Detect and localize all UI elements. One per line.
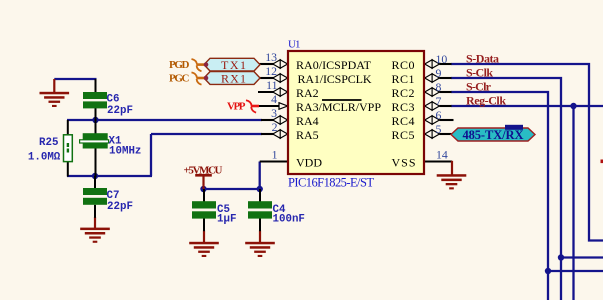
svg-text:R25: R25 (39, 137, 58, 149)
svg-text:5: 5 (436, 122, 442, 136)
svg-text:U1: U1 (288, 39, 301, 51)
svg-text:Reg-Clk: Reg-Clk (466, 93, 506, 107)
svg-text:22pF: 22pF (107, 201, 133, 213)
svg-text:PGD: PGD (169, 59, 190, 71)
svg-text:7: 7 (436, 94, 442, 108)
svg-text:3: 3 (271, 106, 277, 120)
svg-text:1: 1 (272, 148, 278, 162)
svg-text:VDD: VDD (296, 156, 322, 170)
svg-text:12: 12 (265, 64, 277, 78)
svg-text:RA2: RA2 (296, 86, 319, 100)
svg-text:14: 14 (436, 148, 448, 162)
svg-text:PIC16F1825-E/ST: PIC16F1825-E/ST (288, 176, 374, 190)
svg-text:6: 6 (436, 108, 442, 122)
svg-text:2: 2 (272, 120, 278, 134)
svg-text:RC5: RC5 (392, 128, 415, 142)
svg-text:13: 13 (265, 50, 277, 64)
svg-text:9: 9 (436, 66, 442, 80)
svg-text:RA1/ICSPCLK: RA1/ICSPCLK (298, 72, 372, 86)
svg-text:1.0MΩ: 1.0MΩ (28, 151, 61, 163)
svg-text:S-Data: S-Data (466, 51, 499, 65)
svg-text:485-TX/RX: 485-TX/RX (463, 128, 524, 142)
svg-text:10MHz: 10MHz (109, 145, 141, 157)
svg-text:RC0: RC0 (392, 58, 415, 72)
svg-text:10: 10 (436, 52, 448, 66)
svg-text:RC3: RC3 (392, 100, 415, 114)
svg-text:S-Clr: S-Clr (466, 79, 492, 93)
svg-text:RX1: RX1 (221, 72, 246, 86)
svg-text:8: 8 (436, 80, 442, 94)
svg-text:+5VMCU: +5VMCU (184, 164, 223, 176)
svg-text:RA4: RA4 (296, 114, 319, 128)
svg-text:RC1: RC1 (392, 72, 415, 86)
svg-text:RC4: RC4 (392, 114, 415, 128)
svg-text:4: 4 (271, 92, 277, 106)
svg-text:11: 11 (266, 78, 277, 92)
svg-text:RA0/ICSPDAT: RA0/ICSPDAT (296, 58, 372, 72)
svg-text:PGC: PGC (169, 73, 190, 85)
svg-text:S-Clk: S-Clk (466, 65, 493, 79)
svg-text:RA3/MCLR/VPP: RA3/MCLR/VPP (296, 100, 381, 114)
svg-text:C6: C6 (107, 94, 120, 106)
svg-text:TX1: TX1 (221, 58, 246, 72)
svg-text:RA5: RA5 (296, 128, 319, 142)
svg-text:VSS: VSS (392, 156, 416, 170)
svg-text:100nF: 100nF (273, 213, 305, 225)
svg-text:RC2: RC2 (392, 86, 415, 100)
svg-text:VPP: VPP (227, 101, 246, 113)
svg-text:22pF: 22pF (107, 105, 133, 117)
svg-text:1µF: 1µF (217, 213, 236, 225)
